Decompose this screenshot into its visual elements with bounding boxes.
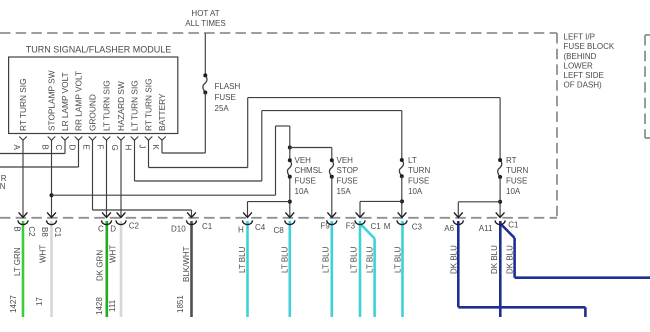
svg-text:TURN: TURN xyxy=(506,166,528,175)
label LEFT I/P FUSE BLOCK (BEHIND LOWER LEFT SIDE OF DASH) xyxy=(564,33,615,90)
svg-text:C1: C1 xyxy=(371,222,382,231)
label D xyxy=(110,225,116,234)
svg-text:A: A xyxy=(12,145,21,151)
svg-text:F3: F3 xyxy=(346,222,356,231)
module pin A label RT TURN SIG xyxy=(18,78,28,131)
svg-text:G: G xyxy=(110,145,119,151)
label C4 xyxy=(255,223,266,232)
svg-text:LT BLU: LT BLU xyxy=(366,246,375,273)
module pin B label STOPLAMP SW xyxy=(47,70,57,131)
svg-text:VEH: VEH xyxy=(295,156,312,165)
svg-text:111: 111 xyxy=(108,299,117,312)
svg-text:C2: C2 xyxy=(129,222,140,231)
label B (rotated) xyxy=(13,226,22,231)
label C1 at F3 xyxy=(371,222,382,231)
wire pin J to RT TURN fuse xyxy=(149,98,501,168)
fuse LT TURN 10A xyxy=(399,158,403,178)
wire LT BLU at C3 xyxy=(401,221,404,317)
label LT BLU 1 xyxy=(238,246,247,273)
module pin H label LT TURN SIG xyxy=(130,80,140,131)
module pin G label HAZARD SW xyxy=(116,81,126,131)
left edge label R xyxy=(1,174,7,183)
label HOT AT ALL TIMES xyxy=(185,9,225,28)
svg-text:FUSE: FUSE xyxy=(408,177,429,186)
label C8 xyxy=(274,226,285,235)
label LT BLU 5 xyxy=(366,246,375,273)
wire DK BLU at A6 xyxy=(458,221,585,317)
wire pin D exits left xyxy=(0,140,79,167)
svg-text:DK BLU: DK BLU xyxy=(505,245,514,274)
svg-text:LR LAMP VOLT: LR LAMP VOLT xyxy=(60,72,70,131)
svg-text:RT TURN SIG: RT TURN SIG xyxy=(144,78,154,131)
svg-text:B: B xyxy=(41,145,50,150)
connector arc C4-H xyxy=(243,220,253,224)
pin letter B xyxy=(41,145,50,150)
svg-text:STOPLAMP SW: STOPLAMP SW xyxy=(47,70,57,131)
label BLK/WHT xyxy=(182,246,191,282)
module pin F label LT TURN SIG xyxy=(102,80,112,131)
svg-text:BLK/WHT: BLK/WHT xyxy=(182,246,191,282)
label DK BLU 3 xyxy=(505,245,514,274)
fuse VEH STOP 15A xyxy=(329,158,333,179)
wire pin G down to connector C2-D xyxy=(120,140,122,217)
label C3 xyxy=(412,222,423,231)
wire DK BLU at A11 xyxy=(499,221,502,317)
label D10 xyxy=(171,225,186,234)
label C1 at A11 xyxy=(508,220,519,229)
svg-text:TURN SIGNAL/FLASHER MODULE: TURN SIGNAL/FLASHER MODULE xyxy=(26,45,172,55)
svg-text:1428: 1428 xyxy=(95,297,104,315)
module pin K connector chevron xyxy=(158,137,166,141)
svg-text:J: J xyxy=(138,145,147,149)
module pin K label BATTERY xyxy=(157,93,167,131)
svg-text:D: D xyxy=(110,225,116,234)
svg-text:M: M xyxy=(384,222,391,231)
module pin E connector chevron xyxy=(89,137,97,141)
label TURN SIGNAL/FLASHER MODULE xyxy=(26,45,172,55)
svg-text:(BEHIND: (BEHIND xyxy=(564,52,597,61)
wire LT BLU at C8 xyxy=(288,221,291,317)
label C2 (rotated) xyxy=(27,226,36,237)
svg-text:C2: C2 xyxy=(27,226,36,237)
module pin H connector chevron xyxy=(131,137,139,141)
label 17 xyxy=(35,297,44,306)
label H xyxy=(238,226,244,235)
label 1851 xyxy=(176,295,185,313)
arrow at C1-B8 xyxy=(47,212,56,217)
label LT BLU 4 xyxy=(349,246,358,273)
label LT BLU 3 xyxy=(322,246,331,273)
connector arc A11 xyxy=(495,220,505,224)
label DK GRN xyxy=(96,250,105,281)
svg-text:FUSE BLOCK: FUSE BLOCK xyxy=(564,42,615,51)
wire STOP fuse output xyxy=(331,177,333,217)
label FLASH FUSE 25A xyxy=(215,82,241,113)
svg-text:B8: B8 xyxy=(40,227,49,237)
module pin E label GROUND xyxy=(88,94,98,131)
svg-text:D: D xyxy=(68,145,77,151)
module pin J label RT TURN SIG xyxy=(144,78,154,131)
label C xyxy=(98,225,104,234)
arrow at C1-D10 xyxy=(187,212,196,217)
left I/P fuse block dashed outline (top edge) xyxy=(0,32,557,34)
connector arc C8 xyxy=(285,220,295,224)
label F3 xyxy=(346,222,356,231)
fuse RT TURN 10A xyxy=(498,158,502,179)
svg-text:A6: A6 xyxy=(444,224,454,233)
pin letter E xyxy=(82,145,91,150)
wire branch to connector A6 xyxy=(458,202,500,217)
svg-text:LT BLU: LT BLU xyxy=(281,246,290,273)
svg-text:B: B xyxy=(13,226,22,231)
svg-text:FUSE: FUSE xyxy=(337,177,358,186)
pin letter K xyxy=(151,145,160,151)
label B8 (rotated) xyxy=(40,227,49,237)
svg-text:LEFT SIDE: LEFT SIDE xyxy=(564,71,604,80)
svg-text:RT TURN SIG: RT TURN SIG xyxy=(18,78,28,131)
connector arc C1-B8 xyxy=(47,220,57,224)
svg-text:A11: A11 xyxy=(479,224,493,233)
wire pin B branch to CHMSL/STOP fuses xyxy=(52,126,290,195)
wire branch to connector F3 xyxy=(360,201,402,217)
svg-text:FUSE: FUSE xyxy=(506,177,527,186)
label VEH CHMSL FUSE 10A xyxy=(295,156,324,196)
label M xyxy=(384,222,391,231)
wire pin C exits left xyxy=(0,140,65,153)
svg-text:C1: C1 xyxy=(53,227,62,238)
pin letter G xyxy=(110,145,119,151)
pin letter F xyxy=(96,145,105,150)
svg-text:FUSE: FUSE xyxy=(295,177,316,186)
svg-text:C: C xyxy=(98,225,104,234)
svg-text:LT BLU: LT BLU xyxy=(238,246,247,273)
svg-text:LEFT I/P: LEFT I/P xyxy=(564,33,595,42)
wire LT BLU at F9 xyxy=(330,221,333,317)
wire LT GRN 1427 xyxy=(22,221,25,317)
svg-text:VEH: VEH xyxy=(337,156,354,165)
svg-text:1851: 1851 xyxy=(176,295,185,313)
svg-text:H: H xyxy=(124,145,133,151)
label LT GRN xyxy=(13,247,22,276)
connector arc C1-D10 xyxy=(187,220,197,224)
svg-text:F: F xyxy=(96,145,105,150)
svg-text:N: N xyxy=(0,182,6,191)
wire pin K to flash fuse xyxy=(162,140,205,153)
label WHT 111 xyxy=(109,245,118,263)
module pin F connector chevron xyxy=(103,137,111,141)
wire LT BLU at C4-H xyxy=(246,221,249,317)
arrow at A6 xyxy=(454,212,463,217)
svg-text:TURN: TURN xyxy=(408,166,430,175)
svg-text:WHT: WHT xyxy=(39,245,48,263)
arrow at C8 xyxy=(285,212,294,217)
label 1427 xyxy=(9,295,18,313)
svg-text:DK BLU: DK BLU xyxy=(449,245,458,274)
connector arc A6 xyxy=(453,220,463,224)
svg-text:LT GRN: LT GRN xyxy=(13,247,22,276)
svg-text:H: H xyxy=(238,226,244,235)
svg-text:C1: C1 xyxy=(508,220,519,229)
svg-text:C: C xyxy=(54,145,63,151)
label RT TURN FUSE 10A xyxy=(506,156,528,196)
module pin B connector chevron xyxy=(48,137,56,141)
fuse FLASH 25A xyxy=(203,73,207,153)
arrow at F3 xyxy=(356,212,365,217)
fuse VEH CHMSL 10A xyxy=(287,148,291,179)
node CHMSL fuse feed xyxy=(288,146,292,150)
module pin A connector chevron xyxy=(19,137,27,141)
connector arc F9 xyxy=(327,220,337,224)
wire link to VEH STOP fuse xyxy=(290,148,332,161)
pin letter A xyxy=(12,145,21,151)
label LT BLU 2 xyxy=(281,246,290,273)
arrow at C4-H xyxy=(243,212,252,217)
svg-text:LT TURN SIG: LT TURN SIG xyxy=(102,80,112,131)
svg-text:WHT: WHT xyxy=(109,245,118,263)
wire pin H to LT TURN fuse xyxy=(135,111,402,181)
node RT TURN output split xyxy=(498,200,502,204)
svg-text:10A: 10A xyxy=(408,187,423,196)
label LT TURN FUSE 10A xyxy=(408,156,430,196)
second dashed block fragment at far right xyxy=(645,35,650,138)
module pin D label RR LAMP VOLT xyxy=(74,71,84,131)
svg-text:BATTERY: BATTERY xyxy=(157,93,167,131)
svg-text:FUSE: FUSE xyxy=(215,93,236,102)
label DK BLU 2 xyxy=(490,245,499,274)
label 111 xyxy=(108,299,117,312)
svg-text:F9: F9 xyxy=(321,222,331,231)
svg-text:HAZARD SW: HAZARD SW xyxy=(116,81,126,131)
wire pin B down to connector C1-B8 xyxy=(51,140,53,217)
arrow at C2-D xyxy=(117,212,126,217)
svg-text:10A: 10A xyxy=(295,187,310,196)
wire pin E (ground) to connector C1-D10 xyxy=(93,140,192,217)
arrow at F9 xyxy=(327,212,336,217)
svg-text:FLASH: FLASH xyxy=(215,82,241,91)
svg-text:K: K xyxy=(151,145,160,151)
wire WHT 17 xyxy=(50,221,53,317)
svg-text:17: 17 xyxy=(35,297,44,306)
module pin G connector chevron xyxy=(117,137,125,141)
svg-text:ALL TIMES: ALL TIMES xyxy=(185,19,225,28)
connector arc C2-C xyxy=(102,220,112,224)
wire pin F down to connector C2-C xyxy=(106,140,108,217)
module pin C connector chevron xyxy=(61,137,69,141)
svg-text:C3: C3 xyxy=(412,222,423,231)
wire DK GRN 1428 xyxy=(106,221,109,317)
arrow at C3 xyxy=(398,212,407,217)
node on pin B wire xyxy=(50,193,54,197)
svg-text:LT: LT xyxy=(408,156,417,165)
svg-text:C1: C1 xyxy=(202,222,213,231)
label C1 xyxy=(202,222,213,231)
svg-text:LT TURN SIG: LT TURN SIG xyxy=(130,80,140,131)
left I/P fuse block dashed outline (bottom edge) xyxy=(0,217,557,219)
label A11 xyxy=(479,224,493,233)
svg-text:LT BLU: LT BLU xyxy=(349,246,358,273)
label WHT xyxy=(39,245,48,263)
wire CHMSL fuse output xyxy=(289,177,291,217)
svg-text:1427: 1427 xyxy=(9,295,18,313)
svg-text:C8: C8 xyxy=(274,226,285,235)
left edge label N xyxy=(0,182,6,191)
pin letter J xyxy=(138,145,147,149)
wire LT BLU at F3 xyxy=(359,221,362,317)
wire LT TURN fuse output xyxy=(401,176,403,217)
wire LT BLU diagonal branch at F3 xyxy=(360,224,375,318)
pin letter D xyxy=(68,145,77,151)
svg-text:25A: 25A xyxy=(215,104,230,113)
wire pin A down to connector C2-B xyxy=(22,140,24,217)
svg-text:HOT AT: HOT AT xyxy=(191,9,219,18)
label F9 xyxy=(321,222,331,231)
label DK BLU 1 xyxy=(449,245,458,274)
connector arc F3 xyxy=(355,220,365,224)
svg-text:C4: C4 xyxy=(255,223,266,232)
svg-text:LOWER: LOWER xyxy=(564,61,594,70)
node CHMSL output split xyxy=(288,200,292,204)
svg-text:CHMSL: CHMSL xyxy=(295,166,324,175)
svg-text:D10: D10 xyxy=(171,225,186,234)
svg-text:LT BLU: LT BLU xyxy=(322,246,331,273)
svg-text:E: E xyxy=(82,145,91,150)
connector arc C2-B xyxy=(18,220,28,224)
label LT BLU 6 xyxy=(393,246,402,273)
arrow at C2-B xyxy=(19,212,28,217)
wire WHT 111 xyxy=(120,221,123,317)
svg-text:STOP: STOP xyxy=(337,166,359,175)
wire branch to connector C4-H xyxy=(248,202,290,217)
svg-text:10A: 10A xyxy=(506,187,521,196)
pin letter C xyxy=(54,145,63,151)
label A6 xyxy=(444,224,454,233)
turn signal/flasher module box xyxy=(9,57,178,134)
module pin D connector chevron xyxy=(75,137,83,141)
wire DK BLU diagonal branch at A11 xyxy=(500,224,650,278)
left I/P fuse block dashed outline (right edge) xyxy=(556,33,558,218)
connector arc C3 xyxy=(397,220,407,224)
label VEH STOP FUSE 15A xyxy=(337,156,359,196)
wire RT TURN fuse output xyxy=(499,177,501,217)
wire BLK/WHT 1851 xyxy=(190,221,193,317)
arrow at A11 xyxy=(496,212,505,217)
connector arc C2-D xyxy=(116,220,126,224)
wire hot-at-all-times feed xyxy=(204,33,206,75)
label C2 xyxy=(129,222,140,231)
svg-text:OF DASH): OF DASH) xyxy=(564,81,603,90)
svg-text:DK BLU: DK BLU xyxy=(490,245,499,274)
svg-text:RR LAMP VOLT: RR LAMP VOLT xyxy=(74,71,84,131)
svg-text:GROUND: GROUND xyxy=(88,94,98,131)
svg-text:15A: 15A xyxy=(337,187,352,196)
svg-text:RT: RT xyxy=(506,156,517,165)
label C1 (rotated) xyxy=(53,227,62,238)
node LT TURN output split xyxy=(400,199,404,203)
svg-text:LT BLU: LT BLU xyxy=(393,246,402,273)
label 1428 xyxy=(95,297,104,315)
module pin J connector chevron xyxy=(145,137,153,141)
pin letter H xyxy=(124,145,133,151)
arrow at C2-C xyxy=(102,212,111,217)
module pin C label LR LAMP VOLT xyxy=(60,72,70,131)
svg-text:DK GRN: DK GRN xyxy=(96,250,105,281)
